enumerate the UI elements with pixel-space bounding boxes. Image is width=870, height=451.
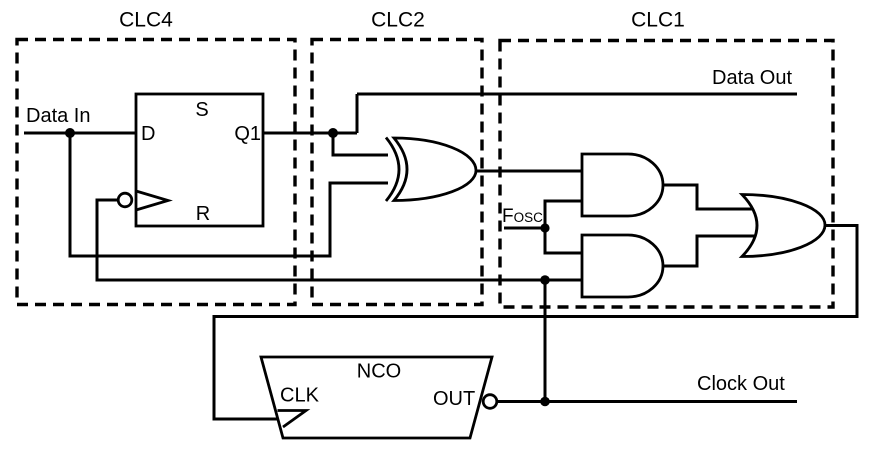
node: Fosc junction [540, 223, 549, 232]
wire: AND1 output to OR top input [663, 185, 760, 209]
XOR gate body [394, 138, 476, 201]
svg-text:NCO: NCO [357, 361, 401, 383]
node: Data In junction [65, 128, 75, 138]
wire: Fosc to AND2 upper input [545, 228, 590, 253]
flip-flop clock edge chevron [136, 191, 168, 210]
wire: Data In to flip-flop D input [24, 132, 136, 135]
node: clock feedback junction [540, 275, 550, 285]
CLC1 dashed boundary [500, 41, 833, 308]
OR gate [742, 195, 825, 257]
CLC2 dashed boundary [312, 40, 482, 305]
svg-text:Data Out: Data Out [712, 67, 792, 89]
wire: flip-flop clock feedback line [97, 200, 590, 280]
node: Clock Out junction [540, 397, 550, 407]
AND gate A2 (bottom) [582, 235, 663, 297]
wire: Fosc input stub [504, 227, 545, 230]
svg-text:Q1: Q1 [234, 123, 261, 145]
AND gate A1 (top) [582, 154, 663, 216]
wire: OR output feedback to NCO CLK [214, 226, 857, 420]
flip-flop clock inverting bubble [118, 193, 132, 207]
wire: Fosc to AND1 lower input [545, 201, 590, 228]
svg-text:CLC4: CLC4 [119, 9, 173, 32]
wire: Q1 output [263, 132, 357, 135]
D flip-flop U1 body [136, 94, 263, 226]
svg-text:R: R [196, 203, 210, 225]
wire: Q1 branch to XOR top input [333, 133, 388, 155]
wire: feedback vertical to Clock Out line [544, 280, 547, 402]
wire: Clock Out line [497, 400, 797, 403]
node: Q1 junction [328, 128, 338, 138]
NCO block body [261, 357, 492, 438]
svg-text:Data In: Data In [26, 105, 90, 127]
svg-text:OUT: OUT [433, 388, 475, 410]
wire: XOR output to AND1 upper input [475, 170, 590, 173]
CLC4 dashed boundary [17, 40, 295, 305]
wire: Data Out riser [356, 94, 359, 133]
svg-text:Clock Out: Clock Out [697, 373, 785, 395]
wire: Data Out line [357, 93, 797, 96]
wire: AND2 output to OR bottom input [663, 236, 760, 266]
svg-text:CLC1: CLC1 [631, 9, 685, 32]
XOR gate input arc [386, 138, 399, 202]
NCO output inverting bubble [483, 395, 497, 409]
wire: Data In feedback down and to XOR bottom input [70, 133, 388, 256]
svg-text:CLC2: CLC2 [371, 9, 425, 32]
NCO clock edge chevron [278, 411, 307, 428]
svg-text:FOSC: FOSC [502, 206, 543, 227]
svg-text:S: S [195, 99, 208, 121]
svg-text:CLK: CLK [280, 385, 320, 407]
svg-text:D: D [141, 123, 155, 145]
